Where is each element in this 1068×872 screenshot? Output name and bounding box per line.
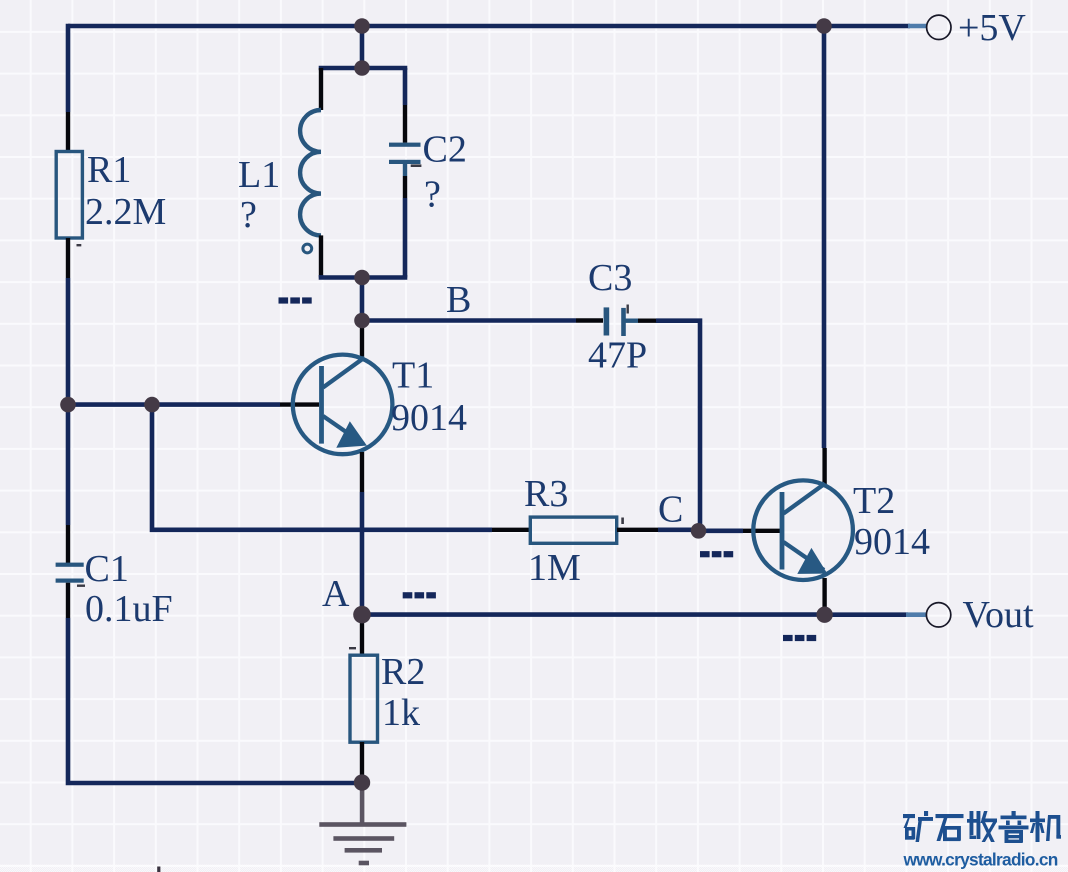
tiny pin mark above R2 xyxy=(349,647,356,649)
node C junction xyxy=(691,523,707,539)
terminal Vout circle xyxy=(926,603,950,627)
dashes near node A xyxy=(403,592,436,598)
transistor T2 xyxy=(753,480,853,580)
pin C1.2 xyxy=(66,583,70,618)
junction R2/ground rail xyxy=(354,774,370,790)
svg-text:R2: R2 xyxy=(381,651,425,693)
wire VCC stub to tank xyxy=(360,26,365,68)
svg-text:B: B xyxy=(446,279,471,321)
wire +5V terminal stub xyxy=(908,24,927,29)
svg-text:47P: 47P xyxy=(588,335,647,377)
pin R1.2 xyxy=(66,238,70,278)
pin T2 collector xyxy=(822,448,826,484)
bottom edge dither band xyxy=(0,865,1068,872)
svg-text:Vout: Vout xyxy=(963,594,1035,636)
junction VCC/T2 collector xyxy=(816,18,832,34)
pin L1.2 xyxy=(319,235,323,277)
pin C2.2 xyxy=(403,176,407,198)
pin T1 collector xyxy=(360,322,364,358)
resistor R2 body xyxy=(350,655,378,742)
char ji xyxy=(1030,811,1061,842)
wire node A to Vout xyxy=(362,612,825,617)
svg-text:1M: 1M xyxy=(528,547,581,589)
wire base node down to C1 xyxy=(66,405,71,525)
wire VCC down to T2 xyxy=(822,26,827,448)
svg-text:+5V: +5V xyxy=(958,7,1026,49)
wire C2 top xyxy=(403,68,408,105)
svg-text:C2: C2 xyxy=(423,129,467,171)
pin L1.1 xyxy=(319,68,323,110)
tiny pin mark under R1 xyxy=(77,244,82,246)
pin R3.1 xyxy=(492,528,531,532)
junction base rail/R3 branch xyxy=(144,397,160,413)
wire base node down to R3 xyxy=(152,405,492,530)
wire base rail (node to T1 base) xyxy=(68,402,280,407)
svg-text:?: ? xyxy=(424,174,441,216)
junction VCC/tank xyxy=(354,18,370,34)
junction tank bottom xyxy=(354,270,370,286)
svg-text:2.2M: 2.2M xyxy=(85,191,166,233)
char yin xyxy=(999,811,1029,843)
tiny pin mark under C2 xyxy=(411,164,422,167)
tiny mark bottom left xyxy=(157,867,160,872)
inductor L1 coil xyxy=(300,110,321,235)
wire left vertical top (VCC to R1) xyxy=(66,24,71,112)
svg-text:T2: T2 xyxy=(853,480,895,522)
wire T1 emitter to node A xyxy=(360,492,365,615)
capacitor C3 plates xyxy=(604,307,610,335)
pin T1 emitter xyxy=(360,452,364,492)
tiny pin mark under C1 xyxy=(77,585,85,587)
tiny pin mark right of R3 xyxy=(621,518,624,525)
pin C1.1 xyxy=(66,525,70,564)
tiny pin mark above C3 xyxy=(627,305,629,314)
svg-text:?: ? xyxy=(240,194,257,236)
wire C1 to bottom rail xyxy=(68,618,362,783)
dashes near node C xyxy=(700,551,733,557)
wire R3 to node C xyxy=(658,527,699,532)
wire tank to node B xyxy=(360,278,365,321)
T2 emitter arrow xyxy=(800,551,826,573)
pin R1.1 xyxy=(66,112,70,152)
svg-text:R1: R1 xyxy=(87,149,131,191)
wire node C to T2 base xyxy=(699,528,744,533)
pin C3.2 xyxy=(638,319,656,323)
pin T2 base xyxy=(743,529,780,533)
watermark chinese characters 矿石收音机 (drawn) xyxy=(903,811,1061,843)
wire node B to C3 xyxy=(362,318,576,323)
svg-text:C: C xyxy=(658,489,683,531)
wire C3 to node C xyxy=(656,321,700,531)
ground symbol xyxy=(319,783,406,866)
C3 plate stub xyxy=(625,319,638,323)
pin R3.2 xyxy=(617,528,658,532)
node B junction xyxy=(354,313,370,329)
wire Vout terminal stub xyxy=(906,612,926,617)
svg-text:C1: C1 xyxy=(85,548,129,590)
svg-text:9014: 9014 xyxy=(391,397,467,439)
wire tank bottom xyxy=(321,275,405,278)
resistor R3 body xyxy=(530,517,616,543)
dashes near L1 bottom xyxy=(279,297,312,303)
wire VCC top rail xyxy=(68,24,910,29)
inductor polarity dot xyxy=(303,244,312,253)
wire C2 bottom xyxy=(403,198,408,278)
wire R1 to base node xyxy=(66,278,71,405)
pin C2.1 xyxy=(403,105,407,143)
char shi xyxy=(936,814,964,841)
junction tank top xyxy=(354,60,370,76)
node A junction xyxy=(353,606,371,624)
svg-text:L1: L1 xyxy=(238,154,280,196)
pin R2.2 xyxy=(360,742,364,783)
svg-text:www.crystalradio.cn: www.crystalradio.cn xyxy=(903,850,1058,870)
capacitor C2 plates xyxy=(389,143,421,147)
svg-text:1k: 1k xyxy=(382,692,420,734)
char shou xyxy=(967,811,997,842)
pin T2 emitter xyxy=(822,578,826,615)
pin R2.1 xyxy=(360,615,364,655)
pin T1 base xyxy=(280,402,319,406)
terminal +5V circle xyxy=(927,15,951,39)
pin C3.1 xyxy=(576,318,603,322)
resistor R1 body xyxy=(56,152,82,239)
char kuang xyxy=(903,811,933,842)
capacitor C1 plates xyxy=(56,563,84,567)
svg-text:0.1uF: 0.1uF xyxy=(85,588,173,630)
dashes below Vout rail xyxy=(783,635,816,641)
T1 emitter arrow xyxy=(339,424,365,447)
wire Vout junction to terminal xyxy=(825,612,908,617)
C2 plate stub xyxy=(403,164,407,176)
wire tank top xyxy=(321,68,405,70)
svg-text:9014: 9014 xyxy=(854,521,930,563)
junction T2 emitter/Vout xyxy=(816,607,832,623)
svg-text:A: A xyxy=(322,573,350,615)
svg-text:C3: C3 xyxy=(588,257,632,299)
svg-text:R3: R3 xyxy=(524,473,568,515)
svg-text:T1: T1 xyxy=(392,355,434,397)
junction R1/C1/base rail xyxy=(60,397,76,413)
transistor T1 xyxy=(293,355,393,455)
